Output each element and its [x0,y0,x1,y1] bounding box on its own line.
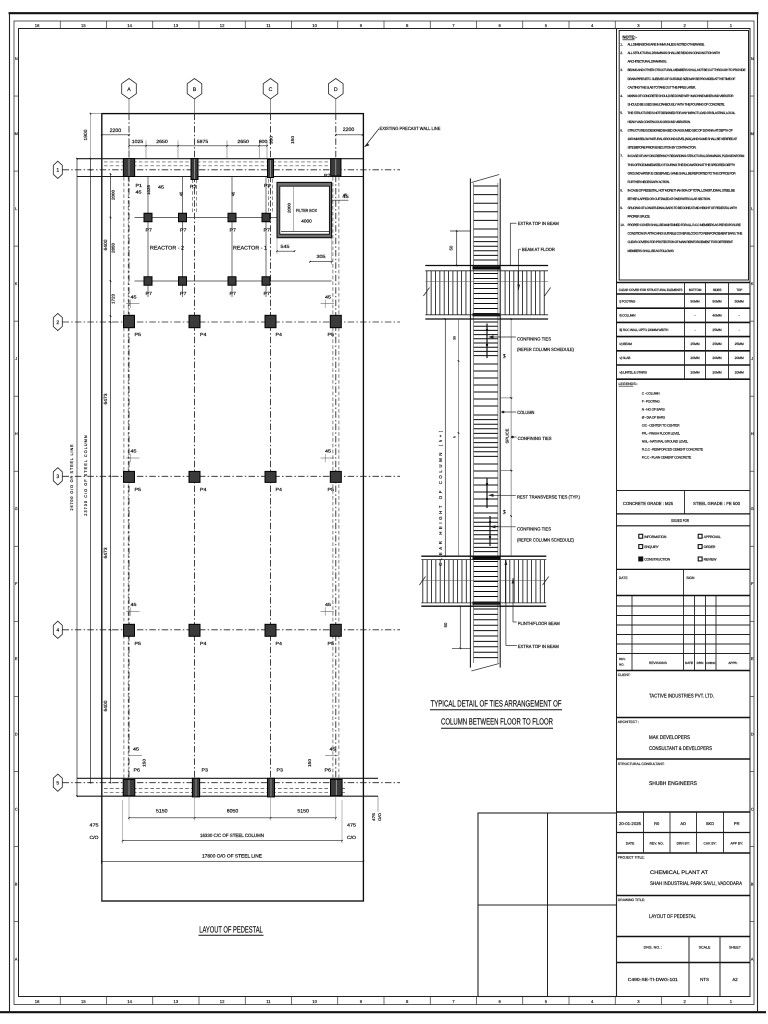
svg-text:1900: 1900 [83,129,88,140]
svg-text:C/O: C/O [347,835,356,840]
svg-text:P7: P7 [264,227,271,232]
svg-text:FILTER BOX: FILTER BOX [296,208,317,213]
svg-text:2: 2 [56,320,59,326]
left dim line 23730 C/O of steel column [90,159,92,783]
svg-text:EXISTING PRECAST WALL LINE: EXISTING PRECAST WALL LINE [380,126,441,131]
pedestal at C1 [268,159,274,177]
svg-text:MIXING OF CONCRETE SHOULD BE D: MIXING OF CONCRETE SHOULD BE DONE WITH M… [628,94,735,98]
svg-text:1025: 1025 [132,139,144,144]
row 1 wall band [77,158,363,160]
svg-text:EXTRA TOP IN BEAM: EXTRA TOP IN BEAM [518,221,559,226]
svg-text:25MM: 25MM [690,342,699,346]
svg-text:CONFINING TIES: CONFINING TIES [517,336,551,341]
corner extension at outline top-left [91,113,102,115]
svg-text:40MM: 40MM [712,314,721,318]
svg-text:M: M [751,132,754,136]
svg-text:50: 50 [453,336,457,340]
svg-text:50MM: 50MM [735,299,744,303]
svg-text:45: 45 [158,185,165,190]
svg-text:IN CASE OF PEDESTAL, NOT MORE: IN CASE OF PEDESTAL, NOT MORE THAN 50% O… [628,189,736,193]
svg-text:45: 45 [325,294,332,299]
svg-text:CHK BY:: CHK BY: [703,842,716,846]
section dim 50 upper [456,231,458,266]
top dim 2200 right [336,134,363,136]
column top break [471,175,499,183]
svg-text:SHEET: SHEET [729,946,742,950]
svg-text:20MM: 20MM [690,356,699,360]
svg-text:12: 12 [220,23,225,28]
svg-text:K: K [751,282,754,286]
right panel left border [616,29,618,997]
svg-text:CLEAR COVERS FOR PROTECTION OF: CLEAR COVERS FOR PROTECTION OF MAIN REIN… [628,240,734,244]
svg-text:CASTING THE SLAB TO TAKE OUT T: CASTING THE SLAB TO TAKE OUT THE PIPES L… [628,85,697,89]
svg-text:ORDER: ORDER [704,545,716,549]
svg-text:PROJECT TITLE:: PROJECT TITLE: [618,856,645,860]
svg-text:C: C [15,807,18,811]
svg-text:P3: P3 [277,767,284,772]
svg-text:P1: P1 [136,183,143,188]
svg-text:REV. NO.: REV. NO. [650,842,664,846]
svg-text:50MM: 50MM [690,299,699,303]
svg-text:475: 475 [347,823,357,828]
svg-text:h: h [453,436,457,438]
clear cover table [617,282,751,284]
svg-text:CONFINING TIES: CONFINING TIES [517,526,551,531]
svg-text:R0: R0 [654,821,660,826]
lower beam mid line [421,579,546,581]
column ties [474,185,498,187]
svg-text:8.: 8. [620,189,623,193]
svg-text:L: L [15,207,17,211]
svg-text:iv) BEAM: iv) BEAM [620,342,633,346]
svg-text:P6: P6 [325,767,332,772]
svg-text:45: 45 [178,191,183,196]
svg-text:P2: P2 [264,183,271,188]
issued-for checkboxes [639,534,643,538]
pedestal row 3 [124,471,135,482]
svg-text:7.: 7. [620,154,623,158]
grid line A vertical [128,99,130,114]
svg-text:FURTHER NECESSARY ACTION.: FURTHER NECESSARY ACTION. [628,180,670,184]
svg-text:h/4: h/4 [503,510,507,515]
svg-text:2850: 2850 [111,242,116,253]
row grid lines 1-5 horizontal [63,169,401,171]
svg-text:PLINTH/FLOOR BEAM: PLINTH/FLOOR BEAM [518,621,560,626]
svg-text:THIS OFFICE IMMEDIATELY. IF DU: THIS OFFICE IMMEDIATELY. IF DURING THE E… [628,163,736,167]
svg-text:45: 45 [136,190,143,195]
pedestal P1 at A1 [123,159,134,177]
svg-text:20MM: 20MM [735,370,744,374]
svg-text:45: 45 [343,193,347,197]
pedestal row 5 (P6 P3 P3 P6) [123,779,135,795]
svg-text:4000: 4000 [301,219,312,224]
svg-text:2650: 2650 [237,139,249,144]
svg-text:N: N [751,57,754,61]
filter box [277,182,332,237]
svg-text:800: 800 [259,139,268,144]
svg-text:B: B [193,87,197,93]
grade row [617,490,751,492]
svg-text:E: E [15,657,18,661]
section inner dim line [458,319,460,556]
svg-text:12: 12 [220,999,225,1004]
svg-text:A: A [751,957,754,961]
svg-text:B: B [751,882,754,886]
svg-text:25MM: 25MM [712,342,721,346]
svg-text:LAYOUT OF PEDESTAL: LAYOUT OF PEDESTAL [649,914,696,920]
svg-text:475: 475 [372,813,376,821]
border band division ticks left/right [14,95,19,97]
svg-text:P5: P5 [135,487,142,492]
lower plinth beam [421,555,546,557]
svg-text:3: 3 [56,474,59,480]
section column outer lines [469,179,471,668]
svg-text:P7: P7 [180,291,187,296]
svg-text:M: M [15,132,18,136]
svg-text:26700 O/O OF STEEL LINE: 26700 O/O OF STEEL LINE [70,444,74,511]
svg-text:P5: P5 [135,641,142,646]
svg-text:10: 10 [312,23,317,28]
svg-text:THE STRUCTURE IS NOT DESIGNED: THE STRUCTURE IS NOT DESIGNED FOR ANY IM… [628,111,736,115]
svg-text:SPLICE: SPLICE [505,428,510,443]
svg-text:150: 150 [307,758,312,767]
svg-text:SIGN: SIGN [686,576,695,580]
svg-text:10: 10 [312,999,317,1004]
drg no / scale / sheet [617,936,751,938]
svg-text:SKD: SKD [706,821,714,826]
svg-text:P5: P5 [328,332,335,337]
svg-text:P6: P6 [134,767,141,772]
svg-text:45: 45 [133,747,140,752]
confining zone marks middle [486,478,488,508]
svg-text:DATE: DATE [626,842,635,846]
svg-text:REACTOR - 1: REACTOR - 1 [233,246,267,252]
svg-text:F - FOOTING: F - FOOTING [642,400,660,404]
empty 2x2 block grid [478,813,617,997]
svg-text:11: 11 [266,23,271,28]
svg-text:SIDES: SIDES [713,288,722,292]
475 O/O rotated right [377,796,379,812]
svg-text:SHOULD BE USED SIMULTANEOUSLY: SHOULD BE USED SIMULTANEOUSLY WITH THE P… [628,103,726,107]
svg-text:-: - [739,314,740,318]
svg-text:ARCHITECT :: ARCHITECT : [618,720,639,724]
border band division ticks top/bottom [59,21,61,29]
grid bubbles A B C D [122,79,137,99]
svg-text:6400: 6400 [103,700,108,711]
svg-text:2200: 2200 [343,127,355,133]
steel line dashed pair at grid D [332,177,334,778]
svg-text:BEAMS AND OTHER STRUCTURAL MEM: BEAMS AND OTHER STRUCTURAL MEMBERS SHALL… [628,68,747,72]
svg-text:A2: A2 [732,977,738,982]
structural consultant box [617,758,751,760]
svg-text:11: 11 [266,999,271,1004]
svg-text:CHEMICAL PLANT AT: CHEMICAL PLANT AT [650,870,709,876]
lower beam end breaks [419,577,425,586]
svg-text:1: 1 [56,168,59,174]
svg-text:(REFER COLUMN SCHEDULE): (REFER COLUMN SCHEDULE) [517,537,574,542]
svg-text:P4: P4 [276,487,283,492]
svg-text:5: 5 [56,781,59,787]
svg-text:TYPICAL DETAIL OF TIES ARRANGE: TYPICAL DETAIL OF TIES ARRANGEMENT OF [431,698,562,708]
svg-text:350: 350 [269,135,274,144]
svg-text:H: H [15,432,18,436]
svg-text:25MM: 25MM [735,342,744,346]
svg-text:16330 C/C OF STEEL COLUMN: 16330 C/C OF STEEL COLUMN [200,833,264,838]
steel line dashed pair at grid A [123,177,125,778]
svg-text:45: 45 [325,602,332,607]
svg-text:150: 150 [142,758,147,767]
pedestal P2 at B1 [191,159,198,180]
filter box internal dim 2000 [293,186,295,231]
svg-text:BEAM AT FLOOR: BEAM AT FLOOR [522,247,556,252]
svg-text:14: 14 [127,999,132,1004]
svg-text:IN CASE OF ANY DISCREPANCY REG: IN CASE OF ANY DISCREPANCY REGARDING STR… [628,154,745,158]
svg-text:C490-SE-TI-DWG-101: C490-SE-TI-DWG-101 [628,977,679,982]
svg-text:CONFINING TIES: CONFINING TIES [518,436,552,441]
drawing title box [617,895,751,897]
svg-text:APPROVAL: APPROVAL [704,535,721,539]
architect box [617,717,751,719]
confining zone marks upper [486,324,488,359]
svg-text:DRAIN PIPES ETC. SLEEVES OF S: DRAIN PIPES ETC. SLEEVES OF SUITABLE SIZ… [628,77,736,81]
svg-text:25MM: 25MM [712,328,721,332]
svg-text:MEMBERS SHALL BE AS FOLLOWS:: MEMBERS SHALL BE AS FOLLOWS: [628,249,675,253]
svg-text:DATE: DATE [619,576,629,580]
svg-text:CONSULTANT & DEVELOPERS: CONSULTANT & DEVELOPERS [649,746,712,752]
svg-text:CONDITION BY ATTACHING SUITABL: CONDITION BY ATTACHING SUITABLE COVER BL… [628,232,744,236]
svg-text:DRN BY:: DRN BY: [677,842,690,846]
svg-text:STEEL GRADE : FE 500: STEEL GRADE : FE 500 [693,501,741,506]
svg-text:REVISIONS: REVISIONS [649,661,668,665]
svg-text:DRN: DRN [697,661,704,665]
svg-text:REVIEW: REVIEW [704,558,718,562]
svg-text:P5: P5 [135,332,142,337]
upper beam hatch [426,271,428,315]
svg-text:P5: P5 [328,487,335,492]
section dim 50 lower [459,606,461,648]
svg-text:NTS: NTS [700,977,709,982]
svg-text:NOTE:-: NOTE:- [623,35,638,40]
revision table [617,595,751,597]
svg-text:STRUCTURE IS DESIGNED BASED ON: STRUCTURE IS DESIGNED BASED ON ASSUMED S… [628,128,733,132]
svg-text:13: 13 [174,23,179,28]
svg-text:h/4: h/4 [503,354,507,359]
svg-text:BOTTOM: BOTTOM [689,288,702,292]
svg-text:P7: P7 [230,291,237,296]
svg-text:G: G [751,507,754,511]
svg-text:2000: 2000 [286,202,291,213]
issued for row [617,513,751,515]
svg-text:50MM: 50MM [712,299,721,303]
svg-text:NGL - NATURAL GROUND LEVEL: NGL - NATURAL GROUND LEVEL [642,440,689,444]
grid line D vertical [335,99,337,114]
svg-text:GROUND WATER IS OBSERVED, SAME: GROUND WATER IS OBSERVED, SAME SHALL BE … [628,171,737,175]
svg-text:PROPER SPLICE.: PROPER SPLICE. [628,214,651,218]
svg-text:LEGENDS:-: LEGENDS:- [619,382,639,386]
svg-text:2200: 2200 [110,128,122,134]
svg-text:6473: 6473 [103,393,108,404]
svg-text:P7: P7 [146,227,153,232]
svg-text:C: C [751,807,754,811]
svg-text:PR: PR [734,821,740,826]
reactor support lines horizontal [135,217,278,219]
svg-text:NO.: NO. [619,663,625,667]
svg-text:STRUCTURAL CONSULTANT:: STRUCTURAL CONSULTANT: [618,762,665,766]
svg-text:2.: 2. [620,51,623,55]
svg-text:P2: P2 [190,184,197,189]
svg-text:ii) COLUMN: ii) COLUMN [620,314,637,318]
svg-text:20MM: 20MM [735,356,744,360]
svg-text:P5: P5 [328,641,335,646]
left dim line 26700 O/O of steel line [76,159,78,797]
svg-text:16: 16 [35,999,40,1004]
svg-text:4.: 4. [620,94,623,98]
svg-text:-: - [739,328,740,332]
svg-text:COLUMN: COLUMN [517,410,534,415]
svg-text:FFL - FINISH FLOOR LEVEL: FFL - FINISH FLOOR LEVEL [642,432,680,436]
svg-text:150: 150 [290,135,295,144]
svg-text:6400: 6400 [103,239,108,250]
svg-text:CLEAR HEIGHT OF COLUMN (h+): CLEAR HEIGHT OF COLUMN (h+) [438,428,443,566]
svg-text:vi) LINTEL & STAIRS: vi) LINTEL & STAIRS [620,370,648,374]
svg-text:CLIENT:: CLIENT: [618,673,631,677]
svg-text:DATE: DATE [685,661,693,665]
svg-text:B: B [15,882,18,886]
svg-text:D: D [334,87,338,93]
svg-text:P4: P4 [276,641,283,646]
upper beam extra top dark bar [473,266,501,269]
svg-text:DRG. NO. :: DRG. NO. : [644,946,662,950]
svg-text:545: 545 [281,244,291,249]
svg-text:P4: P4 [200,641,207,646]
svg-text:REACTOR - 2: REACTOR - 2 [150,246,184,252]
svg-text:E: E [751,657,754,661]
section clear height dim [444,319,446,556]
svg-text:N: N [15,57,18,61]
svg-text:14: 14 [127,23,132,28]
svg-text:EXTRA TOP IN BEAM: EXTRA TOP IN BEAM [518,644,559,649]
svg-text:3.: 3. [620,68,623,72]
building outline [102,114,364,901]
svg-text:P4: P4 [276,332,283,337]
svg-text:20MM: 20MM [712,356,721,360]
pedestals P7 lower reactor row [144,277,152,286]
svg-text:CLEAR COVER FOR STRUCTURAL ELE: CLEAR COVER FOR STRUCTURAL ELEMENTS [619,288,683,292]
pedestals P7 upper reactor row [144,213,152,222]
svg-text:45: 45 [131,602,138,607]
svg-text:G: G [15,507,18,511]
svg-text:K: K [15,282,18,286]
notes box [619,31,748,281]
svg-text:-: - [694,314,695,318]
svg-text:TACTIVE INDUSTRIES PVT. LTD.: TACTIVE INDUSTRIES PVT. LTD. [649,694,714,700]
svg-text:iii) RCC WALL UPTO 230MM WIDTH: iii) RCC WALL UPTO 230MM WIDTH [620,328,669,332]
svg-text:DRAWING TITLE:: DRAWING TITLE: [618,898,645,902]
confining zone marks lower [489,516,491,546]
section right dim line with splice [510,319,512,556]
svg-text:50: 50 [443,622,448,627]
svg-text:APP BY:: APP BY: [730,842,743,846]
svg-text:SCALE: SCALE [699,946,711,950]
svg-text:REV.: REV. [619,657,626,661]
svg-text:305: 305 [317,254,327,259]
svg-text:MAK DEVELOPERS: MAK DEVELOPERS [649,735,690,741]
upper beam end breaks [423,288,429,297]
svg-text:C/C - CENTER TO CENTER: C/C - CENTER TO CENTER [642,424,680,428]
svg-text:5875: 5875 [197,139,209,144]
top dim 2200 left [90,114,92,159]
svg-text:SHAH INDUSTRIAL PARK SAVLI, VA: SHAH INDUSTRIAL PARK SAVLI, VADODARA [650,881,742,887]
svg-text:ALL DIMENSIONS ARE IN MM UNLES: ALL DIMENSIONS ARE IN MM UNLESS NOTED OT… [628,42,705,46]
svg-text:P.C.C - PLAIN CEMENT CONCRETE: P.C.C - PLAIN CEMENT CONCRETE [642,456,692,460]
svg-text:13: 13 [174,999,179,1004]
svg-text:ISSUED FOR: ISSUED FOR [671,518,689,523]
column bottom break [471,664,499,672]
svg-text:20MM: 20MM [712,370,721,374]
grid line C vertical [270,99,272,114]
svg-text:6473: 6473 [103,547,108,558]
svg-text:CHECK: CHECK [706,661,715,665]
svg-text:6050: 6050 [227,809,239,815]
svg-text:P7: P7 [180,227,187,232]
svg-text:45: 45 [131,294,138,299]
svg-text:1000 MM BELOW NATURAL GROUND L: 1000 MM BELOW NATURAL GROUND LEVEL (NGL)… [628,137,738,141]
svg-text:P7: P7 [230,227,237,232]
svg-text:ARCHITECTURAL DRAWINGS.: ARCHITECTURAL DRAWINGS. [628,60,668,64]
svg-text:16: 16 [35,23,40,28]
date sign row [617,568,751,570]
bottom dim 5150/6050/5150 [129,817,336,819]
svg-text:Ø - DIA OF BARS: Ø - DIA OF BARS [642,416,666,420]
svg-text:23730 C/O OF STEEL COLUMN: 23730 C/O OF STEEL COLUMN [84,434,88,515]
svg-text:J: J [751,357,753,361]
svg-text:LAYOUT OF PEDESTAL: LAYOUT OF PEDESTAL [199,925,263,935]
svg-text:10.: 10. [620,223,625,227]
svg-text:SHUBH ENGINEERS: SHUBH ENGINEERS [649,781,697,787]
svg-text:20-01-2025: 20-01-2025 [619,821,642,826]
svg-text:CONSTRUCTION: CONSTRUCTION [644,558,670,562]
svg-text:6.: 6. [620,128,623,132]
svg-text:-: - [694,328,695,332]
upper beam at floor [425,265,548,267]
svg-text:J: J [15,357,17,361]
svg-text:N - NO OF BARS: N - NO OF BARS [642,408,666,412]
upper beam mid line [425,280,548,282]
lower beam hatch [422,560,424,603]
svg-text:45: 45 [231,191,236,196]
svg-text:A: A [127,87,131,93]
svg-text:5150: 5150 [156,809,168,815]
svg-text:P7: P7 [146,291,153,296]
svg-text:P4: P4 [200,332,207,337]
svg-text:P7: P7 [324,173,331,178]
svg-text:45: 45 [131,449,138,454]
svg-text:R.C.C - REINFORCED CEMENT CONC: R.C.C - REINFORCED CEMENT CONCRETE [642,448,704,452]
svg-text:H: H [751,432,754,436]
svg-text:O/O: O/O [378,813,382,821]
svg-text:50: 50 [448,245,453,250]
svg-text:2000: 2000 [111,189,116,200]
svg-text:HEAVY AND CONTINUOUS GROUND VI: HEAVY AND CONTINUOUS GROUND VIBRATION. [628,120,691,124]
svg-text:4: 4 [56,628,59,634]
filter box dim 45 leader [332,199,349,201]
svg-text:17800 O/O OF STEEL LINE: 17800 O/O OF STEEL LINE [202,854,262,859]
svg-text:5150: 5150 [297,809,309,815]
svg-text:15: 15 [81,23,86,28]
svg-text:EITHER LAPPED OR CURTAILED AT: EITHER LAPPED OR CURTAILED AT ONE PARTIC… [628,197,711,201]
svg-text:475: 475 [90,823,100,828]
svg-text:5.: 5. [620,111,623,115]
